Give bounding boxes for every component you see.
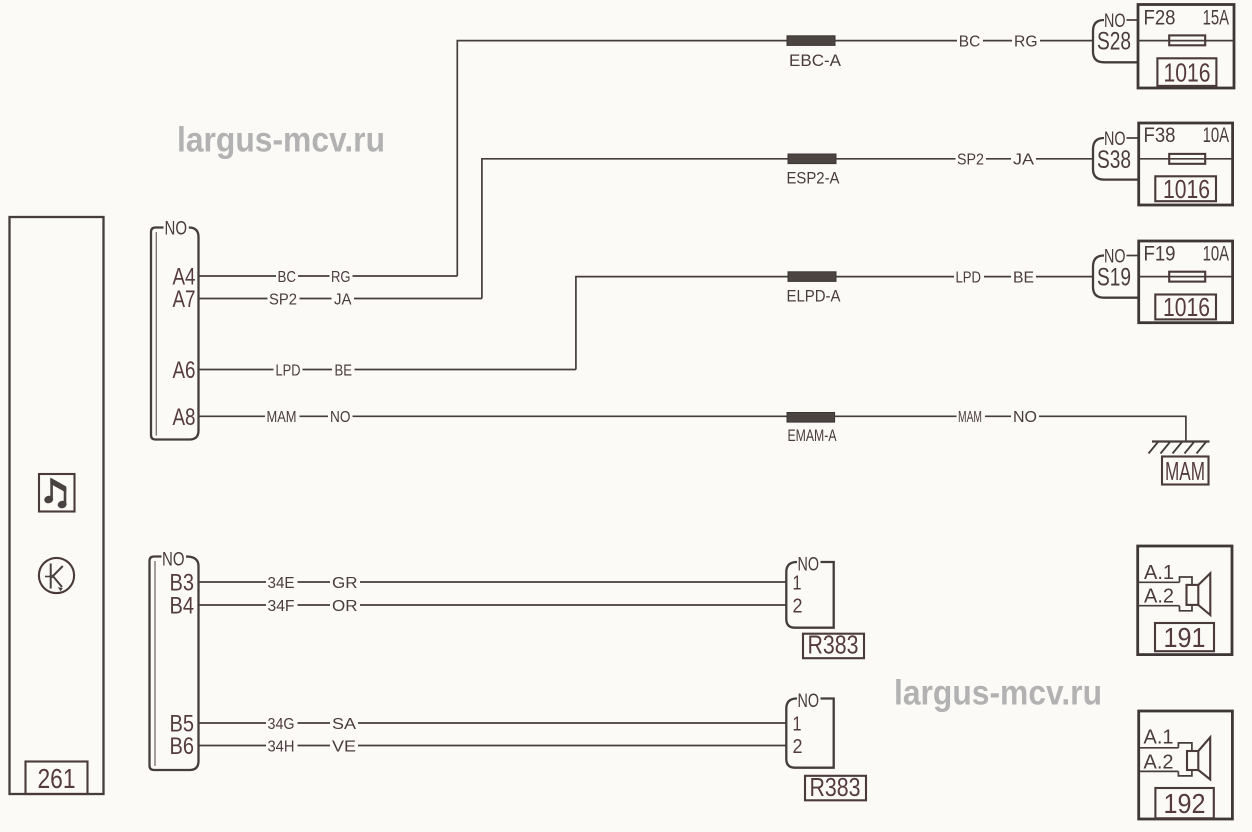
- wire B4 seg1: [199, 604, 267, 606]
- svg-text:A.2: A.2: [1144, 585, 1174, 607]
- svg-text:B4: B4: [170, 593, 195, 620]
- wire A4 seg2: [353, 275, 458, 277]
- svg-text:A.1: A.1: [1144, 562, 1174, 584]
- ground label box MAM: [1162, 457, 1209, 485]
- svg-text:JA: JA: [334, 291, 352, 308]
- svg-text:34G: 34G: [268, 716, 295, 733]
- wire EBC seg4: [1040, 40, 1092, 42]
- svg-text:NO: NO: [1013, 409, 1037, 426]
- svg-text:191: 191: [1164, 622, 1206, 653]
- svg-text:RG: RG: [1014, 33, 1038, 50]
- svg-text:34H: 34H: [268, 738, 295, 755]
- svg-text:OR: OR: [332, 598, 358, 615]
- speaker horn 192: [1198, 737, 1210, 779]
- wire A.1 speaker 192: [1140, 747, 1178, 749]
- wire A6 dash: [303, 369, 333, 371]
- svg-text:1016: 1016: [1164, 58, 1211, 88]
- wire A8 seg1: [199, 415, 266, 417]
- svg-text:MAM: MAM: [1165, 456, 1205, 486]
- wire A4 dash: [298, 275, 330, 277]
- svg-text:34E: 34E: [268, 575, 295, 592]
- speaker driver 192: [1187, 751, 1198, 770]
- wire ESP2 seg3: [836, 158, 956, 160]
- svg-text:largus-mcv.ru: largus-mcv.ru: [894, 674, 1102, 713]
- K symbol glyph: [45, 564, 63, 592]
- connector S19 bracket: [1093, 256, 1139, 298]
- wire B5 seg2: [358, 722, 786, 724]
- svg-text:F28: F28: [1144, 7, 1176, 30]
- svg-text:A.1: A.1: [1144, 727, 1174, 749]
- speaker horn 191: [1198, 573, 1210, 615]
- wire B6 seg1: [199, 745, 267, 747]
- head unit 261 outer box: [10, 217, 104, 794]
- wire A.2 speaker 191: [1139, 605, 1180, 607]
- label box R383 lower: [805, 776, 866, 801]
- svg-text:2: 2: [793, 736, 803, 758]
- wire B3 seg2: [360, 581, 786, 583]
- svg-text:S38: S38: [1097, 146, 1131, 174]
- wire A4 riser: [457, 41, 787, 276]
- svg-text:BC: BC: [959, 33, 981, 50]
- svg-text:VE: VE: [332, 738, 356, 755]
- svg-text:R383: R383: [810, 772, 861, 802]
- svg-text:NO: NO: [798, 691, 820, 712]
- svg-text:EBC-A: EBC-A: [789, 51, 842, 70]
- svg-text:NO: NO: [162, 550, 185, 571]
- connector R383 lower body: [786, 699, 833, 768]
- svg-text:GR: GR: [332, 575, 358, 592]
- fuse wire F19: [1139, 276, 1233, 278]
- fuse wire F28: [1138, 40, 1234, 42]
- wire A.1 speaker 191: [1139, 581, 1180, 583]
- music note icon box: [39, 474, 75, 512]
- splice ESP2-A: [788, 154, 836, 164]
- svg-text:S19: S19: [1097, 264, 1131, 292]
- speaker driver 191: [1187, 585, 1199, 605]
- music note glyph: [43, 478, 67, 510]
- svg-text:NO: NO: [330, 409, 351, 426]
- svg-text:S28: S28: [1097, 28, 1131, 56]
- svg-text:2: 2: [793, 595, 803, 617]
- connector A body: [151, 228, 199, 440]
- svg-text:R383: R383: [808, 630, 859, 660]
- splice EMAM-A: [787, 413, 835, 423]
- wire ESP2 seg4: [1036, 158, 1092, 160]
- svg-text:EMAM-A: EMAM-A: [788, 426, 837, 445]
- svg-text:192: 192: [1164, 788, 1206, 819]
- wire ELPD dash: [984, 276, 1011, 278]
- svg-text:BC: BC: [278, 269, 297, 286]
- ground bar MAM: [1152, 440, 1210, 442]
- svg-text:F19: F19: [1144, 243, 1176, 266]
- connector R383 upper body: [786, 562, 833, 628]
- K symbol circle: [39, 558, 74, 593]
- svg-text:BE: BE: [335, 362, 353, 379]
- svg-text:F38: F38: [1144, 124, 1176, 147]
- svg-text:MAM: MAM: [267, 409, 297, 426]
- wire A7 dash: [300, 298, 332, 300]
- wire ELPD seg4: [1036, 276, 1092, 278]
- wire B6 seg2: [358, 745, 786, 747]
- label box 1016 F38: [1155, 176, 1216, 201]
- label box 1016 F19: [1155, 295, 1216, 320]
- label box 261: [26, 762, 88, 795]
- svg-text:1: 1: [793, 572, 802, 594]
- connector B body: [150, 557, 199, 771]
- svg-text:RG: RG: [331, 269, 351, 286]
- wire B3 seg1: [199, 581, 267, 583]
- svg-text:LPD: LPD: [956, 269, 982, 286]
- wire A.2 speaker 192: [1140, 770, 1178, 772]
- wire B5 seg1: [199, 722, 267, 724]
- svg-text:JA: JA: [1013, 152, 1034, 169]
- svg-text:MAM: MAM: [958, 409, 982, 426]
- wire B3 dash: [298, 581, 331, 583]
- wire A7 seg2: [354, 298, 482, 300]
- fuse element F38: [1169, 154, 1205, 164]
- speaker 191 outer box: [1138, 546, 1232, 655]
- svg-text:1016: 1016: [1163, 292, 1210, 322]
- svg-text:1016: 1016: [1163, 174, 1210, 204]
- wire ESP2 dash: [986, 158, 1011, 160]
- svg-text:34F: 34F: [268, 598, 295, 615]
- svg-text:B6: B6: [170, 733, 195, 760]
- svg-text:A8: A8: [173, 404, 196, 431]
- dash NO S19: [1127, 255, 1139, 257]
- label box R383 upper: [803, 634, 864, 659]
- wire A4 seg1: [199, 275, 277, 277]
- wire A7 seg1: [199, 298, 268, 300]
- svg-text:261: 261: [38, 763, 76, 794]
- wire A6 seg2: [355, 369, 576, 371]
- wire B5 dash: [298, 722, 331, 724]
- svg-text:ESP2-A: ESP2-A: [787, 169, 841, 188]
- svg-text:NO: NO: [165, 218, 188, 239]
- wire EBC seg3: [835, 40, 957, 42]
- wire EMAM dash: [985, 415, 1011, 417]
- svg-text:ELPD-A: ELPD-A: [787, 287, 842, 306]
- fuse element F28: [1169, 35, 1205, 45]
- speaker plug 191: [1180, 577, 1193, 611]
- connector S28 bracket: [1093, 20, 1138, 62]
- svg-text:SP2: SP2: [957, 152, 984, 169]
- wire EBC dash: [983, 40, 1012, 42]
- fuse wire F38: [1139, 158, 1233, 160]
- wire A6 seg1: [199, 369, 274, 371]
- connector A inner edge: [155, 232, 157, 436]
- wire A7 riser: [482, 159, 788, 299]
- svg-text:A7: A7: [173, 286, 196, 313]
- svg-text:BE: BE: [1013, 269, 1034, 286]
- dash NO S38: [1127, 137, 1139, 139]
- connector S38 bracket: [1093, 138, 1139, 180]
- fusebox F38: [1139, 123, 1233, 205]
- splice ELPD-A: [788, 272, 836, 282]
- fuse element F19: [1169, 272, 1205, 282]
- speaker plug 192: [1178, 743, 1192, 776]
- svg-text:15A: 15A: [1203, 7, 1230, 30]
- wire EMAM seg3: [835, 415, 957, 417]
- wire B6 dash: [298, 745, 331, 747]
- svg-text:1: 1: [793, 713, 802, 735]
- wire B4 dash: [298, 604, 331, 606]
- connector B inner edge: [154, 561, 156, 766]
- wire ELPD seg3: [836, 276, 954, 278]
- svg-text:LPD: LPD: [276, 362, 301, 379]
- fusebox F19: [1139, 241, 1233, 323]
- fusebox F28: [1138, 5, 1234, 89]
- splice EBC-A: [787, 36, 835, 46]
- svg-text:A6: A6: [173, 357, 196, 384]
- wire A8 dash: [300, 415, 329, 417]
- svg-text:SA: SA: [332, 716, 356, 733]
- wire A8 seg2: [353, 415, 788, 417]
- label box 191: [1155, 623, 1214, 651]
- label box 1016 F28: [1157, 58, 1216, 86]
- wire EMAM seg4 to ground: [1039, 416, 1186, 441]
- speaker 192 outer box: [1139, 711, 1233, 819]
- svg-text:A.2: A.2: [1144, 751, 1174, 773]
- svg-text:10A: 10A: [1203, 124, 1230, 147]
- dash NO S28: [1127, 19, 1139, 21]
- svg-text:largus-mcv.ru: largus-mcv.ru: [177, 121, 385, 160]
- svg-text:10A: 10A: [1203, 243, 1230, 266]
- wire B4 seg2: [360, 604, 786, 606]
- svg-text:SP2: SP2: [269, 291, 297, 308]
- ground hatches: [1149, 442, 1207, 454]
- label box 192: [1155, 788, 1213, 818]
- wire A6 riser: [576, 277, 788, 370]
